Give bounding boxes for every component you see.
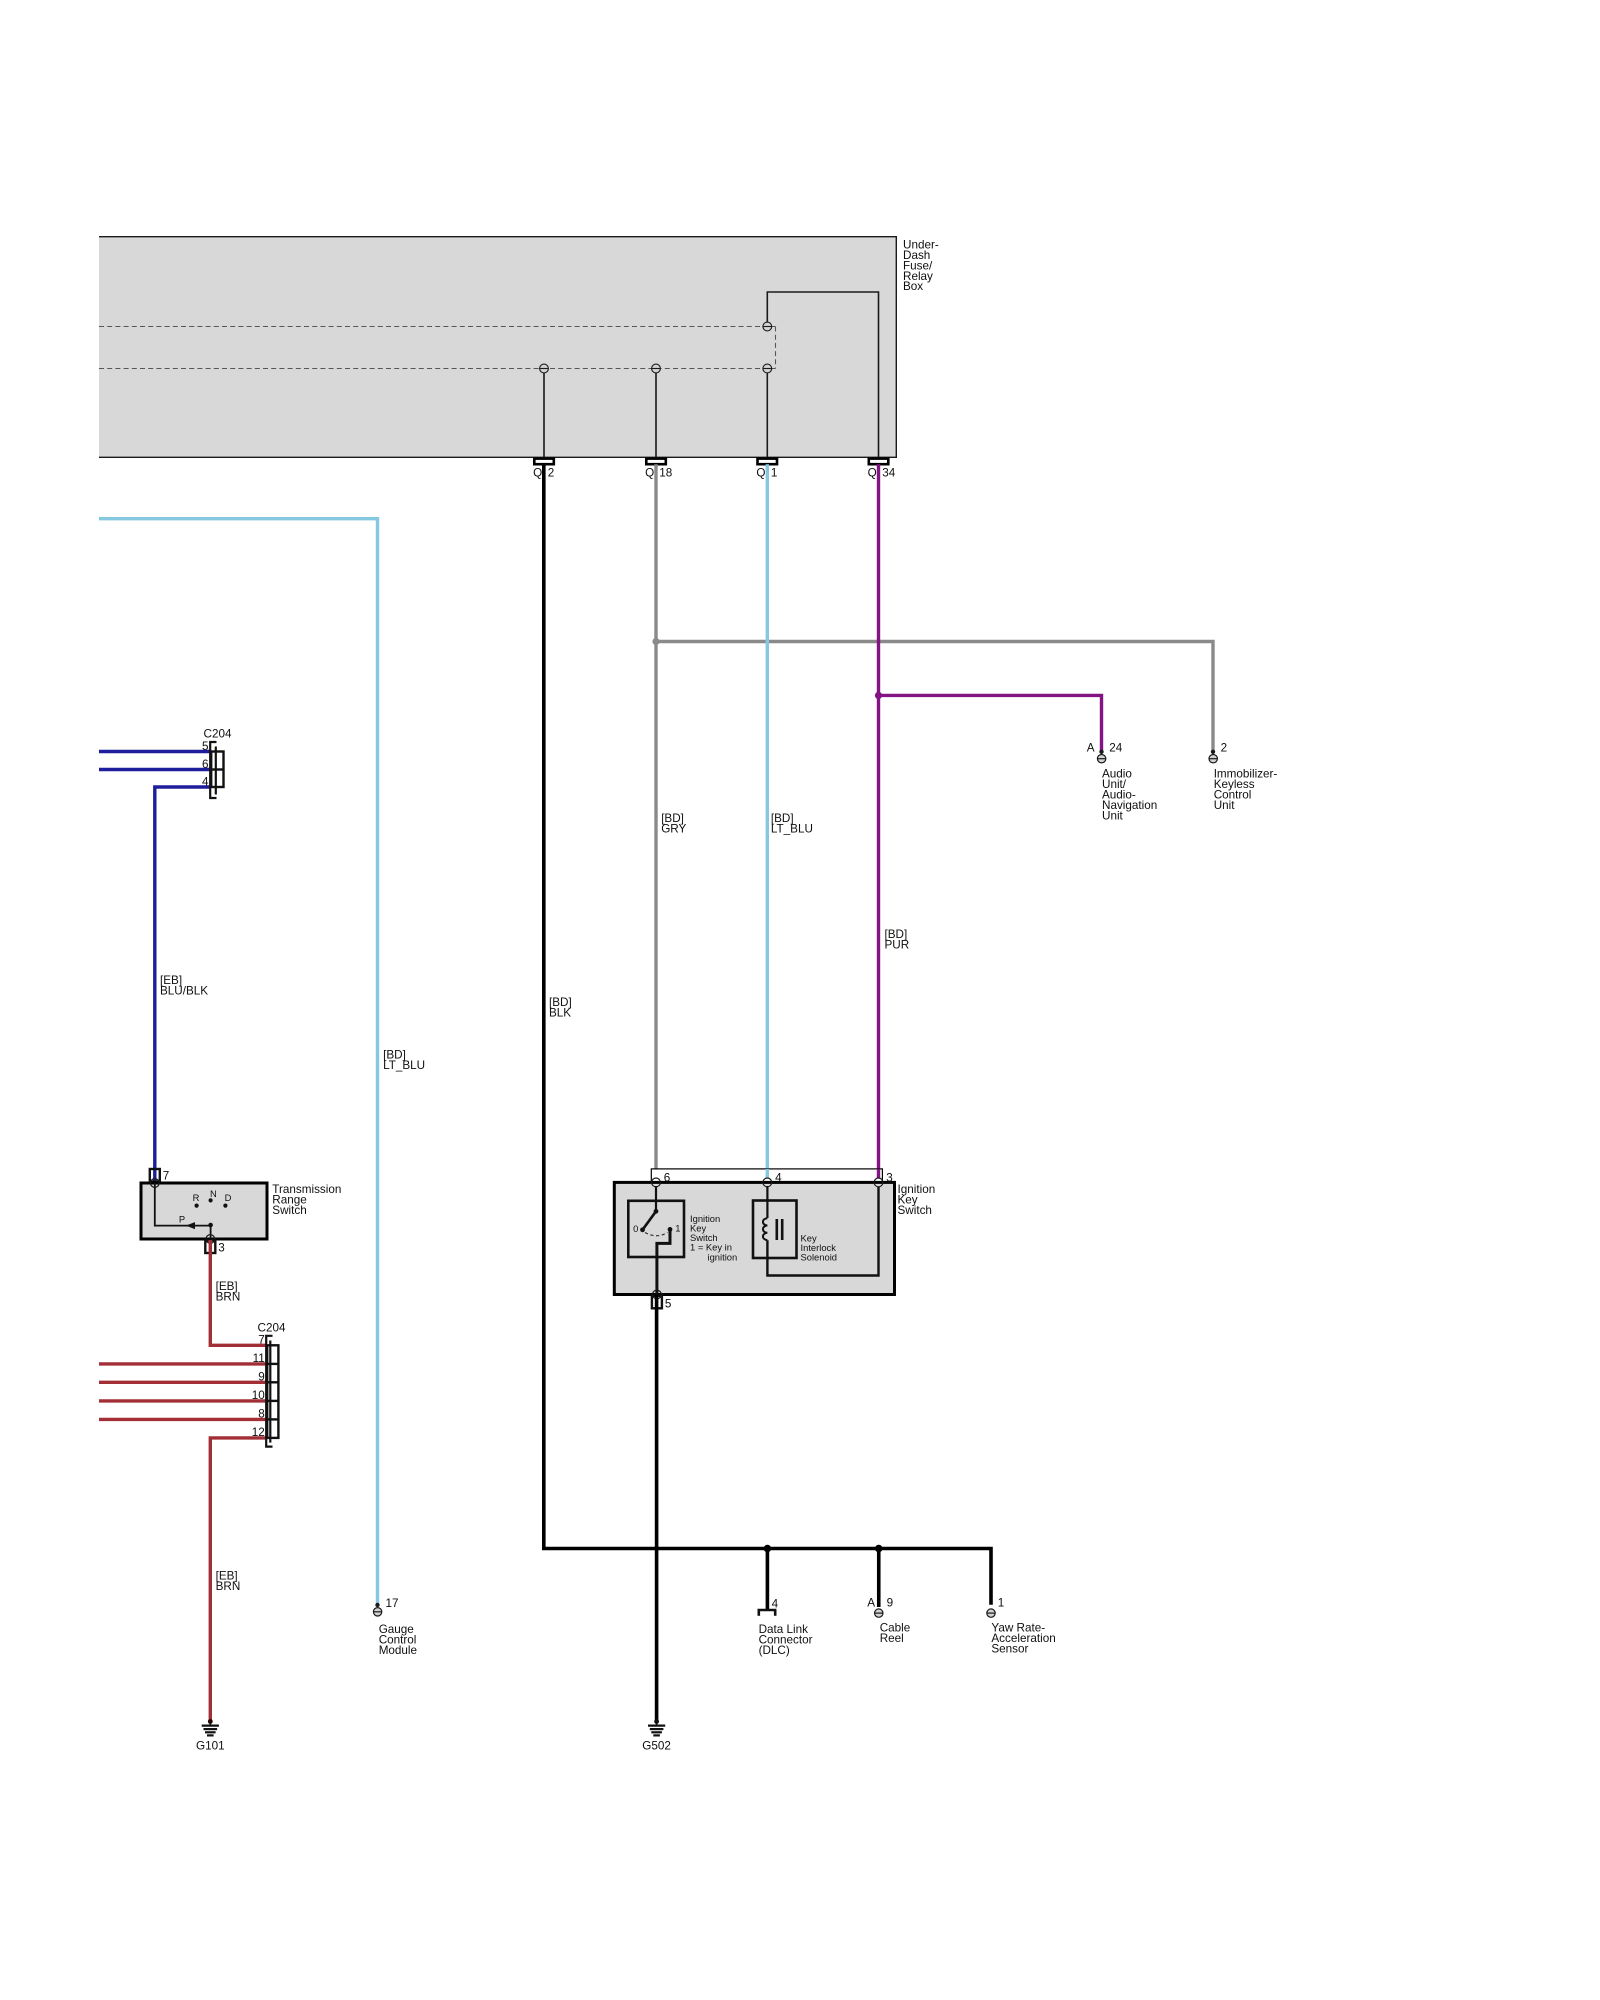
ground G502 symbol <box>648 1719 665 1735</box>
svg-text:A: A <box>1087 742 1095 755</box>
transmission range switch wiper arrowhead <box>186 1222 195 1229</box>
svg-text:N: N <box>210 1188 217 1199</box>
svg-text:A: A <box>867 1597 875 1610</box>
svg-text:(DLC): (DLC) <box>759 1644 790 1657</box>
dashed bus line upper inside fuse box <box>99 326 776 328</box>
navy wire BLU/BLK from C204 pin 4 to transmission range switch pin 7 <box>155 787 210 1181</box>
immobilizer wire end dot <box>1211 750 1215 754</box>
svg-text:BRN: BRN <box>216 1580 241 1593</box>
wire contact 1 to pin 5 <box>657 1229 670 1294</box>
ignition key switch pin 5 connector <box>652 1296 662 1309</box>
ignition key switch box <box>614 1182 894 1294</box>
svg-text:C204: C204 <box>204 728 232 741</box>
svg-text:D: D <box>225 1192 232 1203</box>
wire LT_BLU from Q1 to ignition key switch pin 4 <box>766 464 769 1178</box>
junction dot at cable reel branch <box>875 1545 883 1553</box>
ground G101 symbol <box>202 1719 219 1735</box>
key interlock solenoid box <box>753 1201 797 1259</box>
svg-text:3: 3 <box>218 1241 225 1254</box>
purple branch wire to audio unit <box>879 695 1102 750</box>
transmission range switch contact D dot <box>223 1204 227 1208</box>
solenoid coil <box>763 1218 767 1240</box>
under-dash fuse/relay box label <box>903 238 939 293</box>
fuse box terminal at Q2 <box>540 364 549 373</box>
branch wire to data link connector <box>766 1549 770 1611</box>
svg-text:BRN: BRN <box>216 1290 241 1303</box>
svg-text:Unit: Unit <box>1102 809 1124 822</box>
dashed bus line lower inside fuse box <box>99 368 776 370</box>
wire label [EB] BRN upper <box>216 1280 241 1304</box>
purple wire segment through header bar <box>877 1169 880 1178</box>
fuse box terminal at Q18 <box>652 364 661 373</box>
gauge wire end dot <box>375 1603 379 1607</box>
lt_blu wire segment through header bar <box>766 1169 769 1178</box>
wire BLK from Q2 to ground bus <box>544 464 991 1605</box>
svg-text:0: 0 <box>633 1223 638 1234</box>
dashed jog connecting bus lines <box>775 327 777 369</box>
svg-text:17: 17 <box>386 1597 399 1610</box>
transmission range switch wiper wire <box>155 1183 211 1239</box>
svg-text:34: 34 <box>882 466 896 479</box>
svg-text:ignition: ignition <box>708 1251 738 1262</box>
audio unit terminal <box>1097 755 1105 763</box>
transmission range switch label <box>272 1183 341 1217</box>
connector C204 lower body <box>266 1336 278 1447</box>
yaw rate sensor terminal <box>987 1609 995 1617</box>
wire label [BD] LT_BLU left <box>383 1049 425 1073</box>
svg-text:GRY: GRY <box>661 823 686 836</box>
solenoid core lines <box>777 1219 782 1240</box>
ignition key switch pin 3 entry circle <box>874 1178 883 1187</box>
ignition key switch pin 6 entry circle <box>652 1178 661 1187</box>
immobilizer terminal <box>1209 755 1217 763</box>
connector C204 upper body <box>210 742 223 798</box>
key interlock solenoid label <box>801 1232 838 1262</box>
data link connector symbol <box>758 1610 777 1616</box>
svg-text:1: 1 <box>675 1223 680 1234</box>
pin Q1 connector <box>758 459 778 465</box>
svg-text:6: 6 <box>202 758 209 771</box>
audio wire end dot <box>1099 750 1103 754</box>
gauge control module terminal <box>373 1608 381 1616</box>
fuse box terminal at Q1 upper <box>763 322 772 331</box>
svg-text:18: 18 <box>659 466 672 479</box>
inner ignition switch label <box>690 1213 737 1262</box>
transmission range switch position letters <box>179 1188 232 1224</box>
ignition key switch header bar <box>651 1169 882 1183</box>
svg-text:G502: G502 <box>642 1740 671 1753</box>
cable reel label <box>880 1622 911 1646</box>
svg-text:4: 4 <box>202 776 209 789</box>
svg-text:12: 12 <box>252 1426 265 1439</box>
wire BRN from transmission range switch pin 3 to C204 pin 7 <box>210 1240 266 1345</box>
yaw rate-acceleration sensor label <box>991 1622 1055 1656</box>
svg-text:P: P <box>179 1213 185 1224</box>
switch contact 1 dot <box>668 1227 673 1232</box>
branch wire to cable reel <box>877 1549 881 1608</box>
junction dot at DLC branch <box>764 1545 772 1553</box>
svg-text:Module: Module <box>379 1644 417 1657</box>
internal wire from terminal to pin Q18 <box>655 372 657 458</box>
gauge control module label <box>379 1623 417 1657</box>
red wire into C204 pin 11 <box>99 1362 266 1365</box>
svg-text:Q: Q <box>868 466 877 479</box>
wire label [EB] BRN lower <box>216 1570 241 1594</box>
svg-text:11: 11 <box>253 1352 265 1365</box>
wire pin 4 to solenoid coil <box>766 1186 768 1218</box>
svg-text:1: 1 <box>771 466 778 479</box>
data link connector label <box>759 1623 813 1657</box>
under-dash fuse/relay box <box>99 236 897 458</box>
svg-text:2: 2 <box>1221 742 1228 755</box>
pin label Q 2 <box>533 466 554 479</box>
red wire into C204 pin 8 <box>99 1418 266 1421</box>
svg-text:7: 7 <box>163 1170 170 1183</box>
svg-text:Switch: Switch <box>898 1204 932 1217</box>
svg-text:G101: G101 <box>196 1740 225 1753</box>
transmission range switch contact N dot <box>209 1198 213 1202</box>
svg-text:Reel: Reel <box>880 1632 904 1645</box>
inner ignition switch box <box>628 1201 684 1257</box>
cable reel terminal <box>875 1609 883 1617</box>
svg-text:Q: Q <box>645 466 654 479</box>
svg-text:9: 9 <box>258 1370 265 1383</box>
audio unit / audio-navigation unit label <box>1102 768 1157 823</box>
dashed travel arc <box>645 1233 668 1236</box>
svg-text:8: 8 <box>258 1407 265 1420</box>
svg-text:R: R <box>193 1192 200 1203</box>
transmission range switch pin 7 connector <box>150 1169 160 1182</box>
red wire into C204 pin 10 <box>99 1399 266 1402</box>
switch blade <box>643 1211 657 1230</box>
wire label [BD] GRY <box>661 812 686 836</box>
svg-text:Unit: Unit <box>1214 799 1236 812</box>
svg-text:Sensor: Sensor <box>991 1643 1028 1656</box>
internal wire from terminal to pin Q1 <box>766 372 768 458</box>
wire label [BD] PUR <box>885 928 910 952</box>
audio pin labels A 24 <box>1087 742 1123 755</box>
wire pin 6 to switch pivot <box>655 1186 657 1211</box>
wire PUR from Q34 to ignition key switch pin 3 <box>877 464 880 1178</box>
svg-text:5: 5 <box>665 1297 672 1310</box>
svg-text:4: 4 <box>772 1598 779 1611</box>
wire BLK from pin 5 to ground G502 <box>655 1295 659 1721</box>
navy wire into C204 pin 5 <box>99 750 210 753</box>
svg-text:BLU/BLK: BLU/BLK <box>160 985 208 998</box>
svg-text:PUR: PUR <box>885 939 910 952</box>
immobilizer-keyless control unit label <box>1214 768 1278 812</box>
fuse box terminal at Q1 lower <box>763 364 772 373</box>
svg-text:LT_BLU: LT_BLU <box>771 823 813 836</box>
pin Q18 connector <box>646 459 666 465</box>
svg-text:Switch: Switch <box>272 1204 306 1217</box>
wire BRN from C204 pin 12 to ground G101 <box>210 1438 266 1722</box>
transmission range switch pin 7 entry circle <box>150 1179 159 1188</box>
svg-text:9: 9 <box>887 1597 894 1610</box>
wire solenoid to pin 3 <box>767 1187 878 1276</box>
transmission range switch contact R dot <box>195 1204 199 1208</box>
switch pivot dot <box>654 1209 659 1214</box>
svg-text:1: 1 <box>998 1597 1005 1610</box>
transmission range switch pin 3 exit circle <box>206 1235 215 1244</box>
wire LT_BLU from fuse box area to gauge control module <box>99 519 378 1604</box>
svg-text:5: 5 <box>202 740 209 753</box>
svg-text:24: 24 <box>1109 742 1123 755</box>
ignition key switch pin 5 exit circle <box>653 1290 662 1299</box>
red wire into C204 pin 9 <box>99 1381 266 1384</box>
wire label [EB] BLU/BLK <box>160 974 208 998</box>
svg-text:Q: Q <box>756 466 765 479</box>
internal wire from upper terminal to pin Q34 <box>767 292 878 458</box>
ignition key switch pin 4 entry circle <box>763 1178 772 1187</box>
svg-text:2: 2 <box>548 466 555 479</box>
junction on purple wire <box>875 692 882 699</box>
navy wire into C204 pin 6 <box>99 768 210 771</box>
wire GRY from Q18 to ignition key switch pin 6 <box>654 464 657 1169</box>
pin label Q 1 <box>756 466 777 479</box>
transmission range switch contact P dot <box>208 1223 213 1228</box>
pin label Q 34 <box>868 466 896 479</box>
pin Q2 connector <box>534 459 554 465</box>
transmission range switch box <box>141 1183 267 1239</box>
svg-text:BLK: BLK <box>549 1007 571 1020</box>
svg-text:Box: Box <box>903 280 923 293</box>
svg-text:Solenoid: Solenoid <box>801 1252 838 1263</box>
pin Q34 connector <box>869 459 889 465</box>
gray branch wire to immobilizer unit <box>656 642 1213 751</box>
transmission range switch pin 3 connector <box>205 1241 215 1254</box>
internal wire from terminal to pin Q2 <box>543 372 545 458</box>
wire label [BD] BLK <box>549 996 572 1020</box>
pin label Q 18 <box>645 466 672 479</box>
svg-text:10: 10 <box>252 1389 266 1402</box>
wire label [BD] LT_BLU <box>771 812 813 836</box>
ignition key switch outer label <box>898 1183 936 1217</box>
svg-text:7: 7 <box>258 1333 265 1346</box>
svg-text:Q: Q <box>533 466 542 479</box>
junction on gray wire <box>652 638 659 645</box>
cable reel pin labels A 9 <box>867 1597 893 1610</box>
svg-text:LT_BLU: LT_BLU <box>383 1059 425 1072</box>
switch contact 0 dot <box>640 1227 645 1232</box>
